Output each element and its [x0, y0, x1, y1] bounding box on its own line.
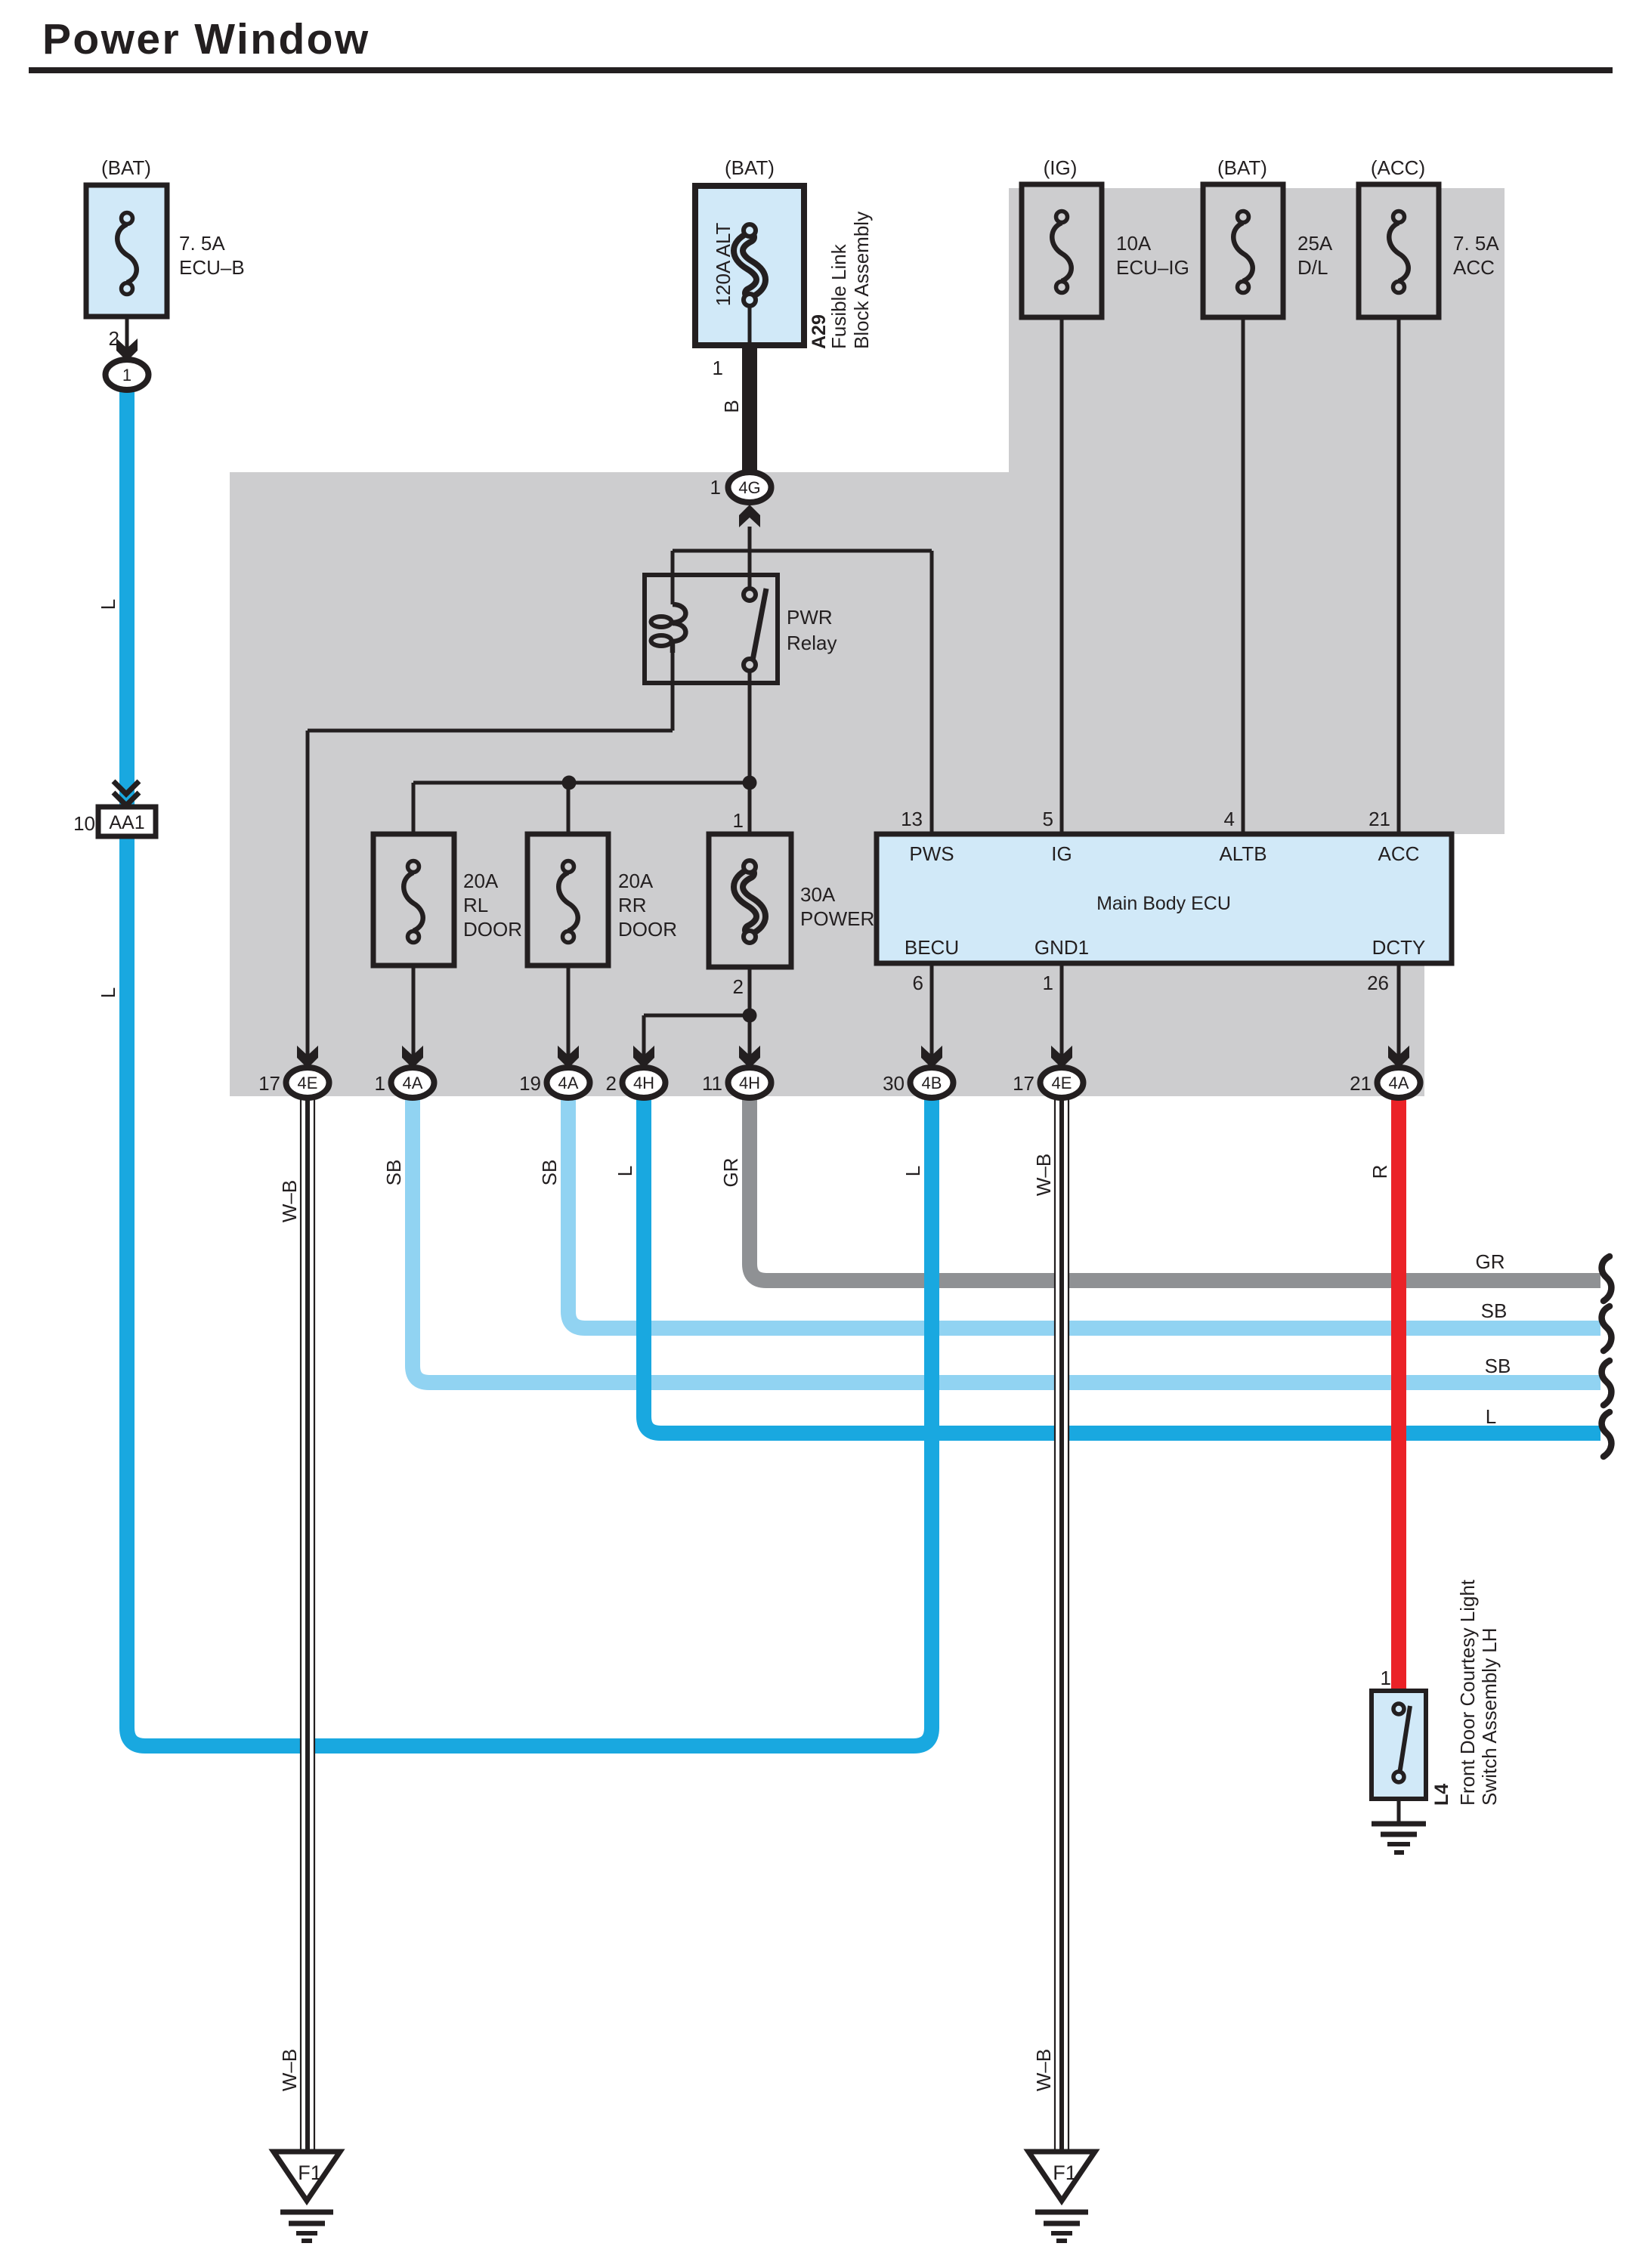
svg-text:PWS: PWS: [909, 842, 954, 865]
svg-text:30: 30: [883, 1072, 905, 1095]
svg-text:2: 2: [733, 975, 744, 998]
svg-text:30A: 30A: [800, 883, 836, 906]
svg-text:ACC: ACC: [1378, 842, 1420, 865]
svg-text:Power Window: Power Window: [42, 15, 370, 63]
svg-text:5: 5: [1043, 808, 1053, 830]
svg-text:ECU–IG: ECU–IG: [1116, 256, 1189, 279]
svg-text:SB: SB: [538, 1160, 561, 1186]
svg-text:W–B: W–B: [1032, 2049, 1055, 2091]
svg-text:1: 1: [710, 476, 721, 499]
svg-text:(BAT): (BAT): [101, 156, 151, 179]
svg-text:DOOR: DOOR: [463, 918, 522, 941]
svg-text:DCTY: DCTY: [1372, 936, 1426, 959]
svg-text:4H: 4H: [633, 1074, 654, 1092]
svg-text:25A: 25A: [1297, 232, 1333, 255]
svg-text:A29: A29: [809, 314, 830, 349]
svg-text:10: 10: [73, 812, 95, 835]
svg-text:R: R: [1368, 1165, 1391, 1179]
svg-text:F1: F1: [298, 2161, 322, 2184]
svg-text:F1: F1: [1053, 2161, 1077, 2184]
svg-text:4H: 4H: [739, 1074, 760, 1092]
svg-text:D/L: D/L: [1297, 256, 1328, 279]
svg-text:L: L: [902, 1166, 924, 1176]
svg-text:Main Body ECU: Main Body ECU: [1096, 893, 1231, 914]
svg-text:ACC: ACC: [1453, 256, 1495, 279]
svg-text:GND1: GND1: [1034, 936, 1089, 959]
svg-text:4: 4: [1224, 808, 1235, 830]
svg-text:4A: 4A: [403, 1074, 423, 1092]
svg-text:AA1: AA1: [109, 812, 144, 833]
svg-text:L: L: [1486, 1405, 1496, 1428]
svg-text:L4: L4: [1431, 1784, 1452, 1806]
svg-text:(ACC): (ACC): [1371, 156, 1425, 179]
svg-text:B: B: [720, 400, 743, 413]
svg-text:SB: SB: [382, 1160, 405, 1186]
svg-text:17: 17: [1013, 1072, 1034, 1095]
svg-text:GR: GR: [1476, 1250, 1505, 1273]
svg-text:DOOR: DOOR: [618, 918, 677, 941]
svg-text:L: L: [97, 599, 119, 610]
svg-text:Relay: Relay: [787, 632, 837, 654]
svg-text:IG: IG: [1051, 842, 1072, 865]
svg-text:W–B: W–B: [278, 1180, 301, 1222]
svg-text:SB: SB: [1481, 1299, 1508, 1322]
svg-text:RL: RL: [463, 894, 488, 916]
svg-text:(BAT): (BAT): [1217, 156, 1267, 179]
svg-text:4E: 4E: [298, 1074, 318, 1092]
svg-text:ECU–B: ECU–B: [179, 256, 245, 279]
svg-text:11: 11: [702, 1072, 722, 1095]
svg-text:21: 21: [1368, 808, 1390, 830]
svg-text:1: 1: [1043, 972, 1053, 994]
svg-text:4B: 4B: [922, 1074, 942, 1092]
svg-text:7. 5A: 7. 5A: [179, 232, 225, 255]
svg-text:19: 19: [519, 1072, 541, 1095]
svg-text:1: 1: [713, 357, 723, 379]
svg-text:Fusible Link: Fusible Link: [827, 243, 850, 349]
svg-text:4G: 4G: [738, 478, 760, 497]
svg-text:20A: 20A: [463, 870, 499, 892]
svg-text:L: L: [614, 1166, 636, 1176]
svg-text:20A: 20A: [618, 870, 654, 892]
svg-text:Block Assembly: Block Assembly: [850, 212, 873, 349]
svg-text:GR: GR: [719, 1158, 742, 1188]
svg-text:L: L: [97, 987, 119, 998]
svg-text:17: 17: [258, 1072, 280, 1095]
svg-text:(IG): (IG): [1044, 156, 1078, 179]
svg-text:BECU: BECU: [905, 936, 959, 959]
svg-text:4A: 4A: [558, 1074, 579, 1092]
svg-text:POWER: POWER: [800, 907, 874, 930]
svg-text:SB: SB: [1485, 1355, 1511, 1377]
svg-text:1: 1: [375, 1072, 385, 1095]
svg-text:4A: 4A: [1389, 1074, 1409, 1092]
svg-text:Switch Assembly LH: Switch Assembly LH: [1478, 1627, 1501, 1806]
svg-text:(BAT): (BAT): [725, 156, 775, 179]
svg-text:Front Door Courtesy Light: Front Door Courtesy Light: [1456, 1579, 1479, 1806]
svg-text:10A: 10A: [1116, 232, 1152, 255]
svg-text:21: 21: [1350, 1072, 1372, 1095]
svg-text:RR: RR: [618, 894, 647, 916]
svg-text:1: 1: [733, 809, 744, 832]
svg-text:6: 6: [913, 972, 923, 994]
svg-text:2: 2: [109, 327, 119, 350]
svg-text:4E: 4E: [1052, 1074, 1072, 1092]
svg-text:1: 1: [122, 366, 131, 385]
svg-text:1: 1: [1381, 1667, 1391, 1689]
svg-text:2: 2: [606, 1072, 617, 1095]
svg-text:PWR: PWR: [787, 606, 833, 629]
svg-text:W–B: W–B: [1032, 1154, 1055, 1196]
svg-text:7. 5A: 7. 5A: [1453, 232, 1499, 255]
svg-text:13: 13: [901, 808, 923, 830]
svg-text:26: 26: [1367, 972, 1389, 994]
svg-text:ALTB: ALTB: [1219, 842, 1266, 865]
svg-text:120A ALT: 120A ALT: [712, 222, 734, 306]
svg-text:W–B: W–B: [278, 2049, 301, 2091]
